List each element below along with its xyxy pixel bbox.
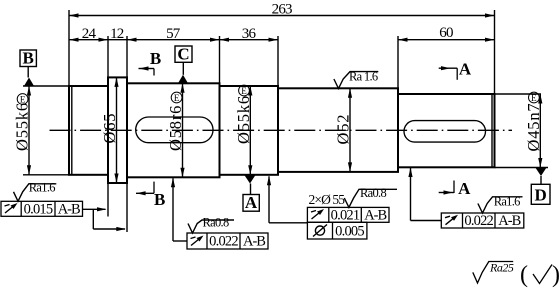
- svg-text:A-B: A-B: [58, 201, 80, 217]
- diameter dim Ø55k6 E (journal 2): [234, 85, 253, 175]
- roughness Ra1.6 above right frame: [478, 195, 523, 213]
- dimension 263: [69, 2, 495, 95]
- svg-text:Ø58r6: Ø58r6: [166, 105, 185, 151]
- svg-text:A-B: A-B: [243, 234, 265, 250]
- shaft section S1 Ø55k6: [69, 86, 108, 175]
- shaft section S2 Ø65: [108, 77, 127, 183]
- roughness Ra0.8 above bottom-center frame: [188, 216, 234, 233]
- roughness Ra1.6 above 0.015 frame: [14, 181, 57, 202]
- diameter dim Ø65: [100, 77, 119, 183]
- shaft section S4 Ø55k6: [220, 86, 279, 175]
- roughness Ra1.6 on Ø52 top: [334, 70, 378, 89]
- diameter dim Ø45n7 E: [495, 92, 549, 167]
- svg-text:Ø52: Ø52: [334, 114, 353, 145]
- svg-text:A-B: A-B: [498, 213, 520, 229]
- dimension 57: [166, 26, 219, 84]
- section mark B top: [139, 49, 162, 76]
- runout frame 0.021 A-B (two-row, row 1): [307, 207, 389, 223]
- dimension 36: [220, 26, 279, 89]
- svg-text:E: E: [174, 93, 180, 103]
- svg-text:E: E: [531, 93, 537, 103]
- svg-text:Ra25: Ra25: [489, 261, 514, 275]
- svg-text:(: (: [520, 262, 528, 288]
- svg-text:Ra0.8: Ra0.8: [360, 186, 386, 200]
- diameter dim Ø52: [334, 88, 353, 172]
- dimension 12: [110, 26, 136, 78]
- leader of 0.015 frame: [83, 183, 128, 232]
- svg-text:B: B: [154, 190, 165, 209]
- leader of 0.021 frame: [267, 176, 308, 223]
- roughness Ra0.8 above 0.021 frame: [344, 186, 397, 207]
- svg-text:D: D: [534, 186, 546, 205]
- svg-text:24: 24: [82, 26, 97, 42]
- svg-text:Ø55k6: Ø55k6: [13, 102, 32, 151]
- svg-text:A-B: A-B: [364, 207, 386, 223]
- svg-text:Ra1.6: Ra1.6: [494, 195, 520, 209]
- dimension 24: [69, 26, 278, 78]
- section mark B bottom: [136, 182, 165, 209]
- svg-text:Ø45n7: Ø45n7: [524, 103, 543, 152]
- chamfer line right end: [491, 94, 493, 167]
- svg-text:A: A: [459, 60, 472, 79]
- section mark A top: [439, 60, 472, 80]
- svg-text:B: B: [150, 49, 161, 68]
- datum C: [175, 45, 192, 84]
- diameter dim Ø58r6 E: [166, 83, 185, 177]
- svg-text:Ra 1.6: Ra 1.6: [349, 70, 378, 84]
- svg-text:0.021: 0.021: [331, 207, 360, 223]
- svg-text:36: 36: [242, 26, 257, 42]
- leader of bottom-center frame: [171, 178, 187, 241]
- runout frame 0.022 A-B (bottom center, Ø58): [187, 233, 268, 250]
- keyway 1 on Ø58: [136, 117, 213, 143]
- svg-text:A: A: [458, 179, 471, 198]
- svg-text:A: A: [245, 193, 258, 212]
- svg-text:E: E: [241, 86, 247, 96]
- chamfer line left end: [71, 86, 73, 175]
- svg-text:B: B: [23, 49, 34, 68]
- section mark A bottom: [439, 179, 471, 198]
- datum A: [243, 175, 259, 212]
- svg-text:0.005: 0.005: [335, 223, 364, 239]
- leader of right frame: [408, 168, 441, 221]
- diameter dim Ø55k6 E (journal 1): [13, 86, 70, 175]
- datum D: [531, 168, 550, 205]
- runout frame 0.015 A-B (left): [1, 201, 83, 217]
- general roughness note Ra25 with check: [473, 261, 560, 288]
- cylindricity frame 0.005 (row 2): [307, 222, 367, 239]
- dimension 60: [398, 25, 495, 88]
- keyway 2 on Ø45: [404, 121, 486, 143]
- svg-text:C: C: [177, 45, 189, 64]
- runout frame 0.022 A-B (right, Ø45): [441, 213, 524, 229]
- svg-text:Ø55k6: Ø55k6: [234, 95, 253, 144]
- svg-text:0.022: 0.022: [464, 213, 493, 229]
- svg-text:): ): [552, 262, 560, 288]
- svg-text:E: E: [20, 94, 26, 104]
- center line: [50, 129, 513, 131]
- svg-text:Ø65: Ø65: [100, 113, 119, 144]
- svg-text:263: 263: [272, 2, 292, 18]
- shaft section S3 Ø58r6: [127, 83, 220, 177]
- svg-text:57: 57: [166, 26, 181, 42]
- shaft section S5 Ø52: [278, 88, 398, 172]
- svg-text:0.015: 0.015: [24, 201, 53, 217]
- shaft section S6 Ø45n7: [398, 94, 495, 167]
- svg-text:2×Ø 55: 2×Ø 55: [309, 192, 346, 207]
- svg-text:Ra0.8: Ra0.8: [203, 216, 229, 230]
- svg-text:Ra1.6: Ra1.6: [29, 181, 55, 195]
- datum B: [20, 49, 36, 87]
- svg-text:60: 60: [439, 25, 453, 41]
- svg-text:12: 12: [110, 26, 124, 42]
- svg-text:0.022: 0.022: [209, 234, 238, 250]
